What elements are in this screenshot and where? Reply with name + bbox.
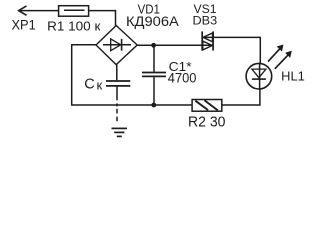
connector XP1 arrowhead xyxy=(19,6,27,15)
wire diac to right corner xyxy=(202,36,260,38)
diac VS1 top triangle xyxy=(203,33,213,42)
capacitor Ck bottom plate xyxy=(106,85,130,87)
ground symbol xyxy=(112,127,128,129)
wire left branch down xyxy=(71,44,73,105)
diac VS1 right bar xyxy=(212,31,214,50)
resistor R2 power mark diagonals xyxy=(195,101,208,110)
svg-text:КД906А: КД906А xyxy=(126,14,179,30)
wire bridge bottom to capacitor Ck xyxy=(116,65,118,81)
LED HL1 emission arrow 2 xyxy=(275,53,290,69)
wire bridge left corner to left branch xyxy=(72,44,96,46)
wire dashed to ground xyxy=(116,103,118,106)
wire bridge right corner to diac xyxy=(137,44,213,46)
diac VS1 bottom triangle xyxy=(203,41,213,50)
bridge VD1 inner diode cathode bar xyxy=(121,39,123,51)
capacitor C1 bottom plate xyxy=(142,75,166,77)
wire C1 top lead xyxy=(153,45,155,72)
capacitor Ck top plate xyxy=(106,80,130,82)
wire bottom rail xyxy=(71,104,260,106)
svg-text:R1 100 к: R1 100 к xyxy=(47,18,101,33)
svg-text:R2 30: R2 30 xyxy=(188,113,226,130)
LED HL1 triangle xyxy=(252,69,266,78)
bridge rectifier VD1 diamond xyxy=(96,26,137,65)
svg-text:XP1: XP1 xyxy=(12,17,36,33)
capacitor C1 top plate xyxy=(142,72,166,74)
LED HL1 cathode bar xyxy=(252,78,266,80)
svg-text:HL1: HL1 xyxy=(281,70,305,84)
LED HL1 emission arrow 1 xyxy=(268,47,282,62)
diac VS1 left bar xyxy=(201,31,203,50)
svg-text:4700: 4700 xyxy=(168,70,197,86)
LED HL1 wire through xyxy=(259,63,261,89)
bridge VD1 inner diode triangle xyxy=(111,39,121,51)
wire XP1 arrow shaft to R1 xyxy=(20,10,59,12)
wire LED to bottom rail xyxy=(259,89,261,106)
LED HL1 circle xyxy=(246,63,272,89)
svg-text:к: к xyxy=(97,77,103,92)
node junction bottom of C1 xyxy=(151,103,156,108)
resistor R2 body xyxy=(192,100,222,112)
svg-text:DB3: DB3 xyxy=(193,14,218,28)
node junction top of C1 xyxy=(151,43,156,48)
bridge VD1 inner diode lead xyxy=(103,44,131,46)
resistor R1 1W power mark xyxy=(64,9,85,11)
resistor R1 body xyxy=(59,6,89,17)
wire R1 to top corner xyxy=(89,10,116,12)
wire C1 bottom lead xyxy=(153,77,155,105)
wire right branch down to LED xyxy=(259,37,261,64)
wire Ck to bottom rail xyxy=(116,87,118,101)
svg-text:C: C xyxy=(84,77,94,93)
wire corner down to bridge top xyxy=(115,10,117,26)
